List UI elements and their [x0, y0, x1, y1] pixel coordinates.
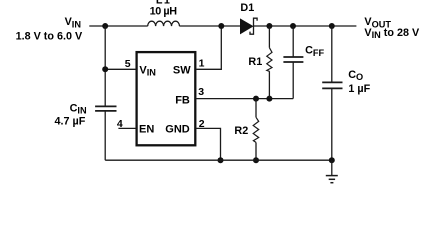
junction dot SW on top rail	[218, 23, 224, 29]
junction dot pin5 on VIN rail	[102, 66, 108, 72]
wire EN stub	[118, 127, 136, 129]
wire D1 cathode to VOUT terminal	[254, 25, 357, 27]
wire bottom ground rail	[105, 159, 332, 161]
svg-text:R1: R1	[248, 56, 262, 68]
ground	[326, 160, 338, 183]
inductor L1	[148, 21, 180, 26]
svg-text:R2: R2	[234, 125, 248, 137]
capacitor CIN	[95, 106, 116, 111]
junction dot ground node	[329, 157, 335, 163]
svg-text:GND: GND	[165, 123, 190, 135]
junction dot CFF top	[290, 23, 296, 29]
junction dot VIN node	[102, 23, 108, 29]
svg-text:CFF: CFF	[305, 45, 324, 58]
capacitor CFF	[283, 26, 303, 99]
svg-text:3: 3	[198, 86, 204, 98]
wire pin 5 VIN rail to IC	[105, 68, 136, 70]
junction dot D1 cathode / R1 top	[266, 23, 272, 29]
resistor R2	[253, 99, 259, 161]
wire GND pin 2 down to bottom rail	[196, 128, 220, 160]
op-amp U1 IC box	[137, 52, 196, 145]
junction dot FB / R1 bottom	[266, 96, 272, 102]
resistor R1	[267, 26, 272, 99]
svg-text:SW: SW	[173, 64, 191, 76]
node VOUT output label	[364, 16, 420, 40]
wire VIN to inductor L1	[89, 25, 147, 27]
svg-text:5: 5	[125, 58, 131, 70]
diode D1 (Schottky)	[240, 18, 257, 34]
node VIN input label	[16, 16, 83, 43]
svg-text:4.7 µF: 4.7 µF	[55, 115, 86, 127]
svg-text:1 µF: 1 µF	[348, 83, 370, 95]
junction dot FB / R2 top	[253, 96, 259, 102]
svg-text:CIN: CIN	[70, 103, 87, 116]
svg-text:10 µH: 10 µH	[150, 5, 178, 17]
svg-text:1: 1	[199, 57, 205, 69]
svg-text:1.8 V to 6.0 V: 1.8 V to 6.0 V	[16, 31, 83, 43]
wire left VIN rail down to CIN top plate	[104, 26, 106, 106]
junction dot GND on bottom rail	[218, 157, 224, 163]
svg-text:D1: D1	[240, 2, 254, 14]
junction dot CO top	[329, 23, 335, 29]
wire L1 to diode D1 anode	[179, 25, 240, 27]
svg-text:EN: EN	[139, 123, 154, 135]
wire FB net	[196, 98, 293, 100]
svg-text:VIN: VIN	[65, 16, 82, 29]
svg-text:FB: FB	[175, 94, 190, 106]
wire SW pin 1 up to top rail	[196, 26, 221, 69]
svg-text:CO: CO	[348, 69, 363, 82]
junction dot R2 bottom rail	[253, 157, 259, 163]
capacitor CO	[322, 26, 342, 160]
wire left rail CIN bottom plate to bottom rail	[104, 111, 106, 160]
